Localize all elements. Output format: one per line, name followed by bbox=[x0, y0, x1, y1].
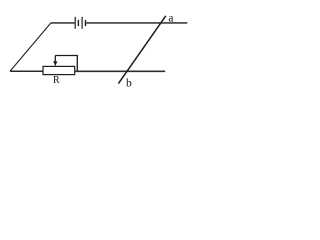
rheostat slider arrow shaft bbox=[54, 56, 56, 62]
wire top-left segment bbox=[51, 22, 75, 24]
svg-text:b: b bbox=[126, 78, 132, 90]
battery B1 plate long left bbox=[74, 17, 76, 29]
rheostat slider arrowhead bbox=[53, 61, 57, 66]
wire slider tap bbox=[55, 56, 77, 72]
battery B1 plate short left bbox=[77, 20, 79, 26]
svg-text:a: a bbox=[168, 12, 173, 24]
battery B1 plate short right bbox=[85, 20, 87, 26]
wire bottom-right segment bbox=[75, 70, 166, 72]
wire top-right segment bbox=[86, 22, 187, 24]
battery B1 plate long right bbox=[81, 17, 83, 29]
wire left slant bbox=[10, 23, 51, 71]
svg-text:R: R bbox=[53, 75, 60, 86]
conductor rod ab (slanted) bbox=[118, 16, 165, 84]
rheostat R body bbox=[43, 66, 75, 74]
wire bottom-left segment bbox=[10, 70, 43, 72]
